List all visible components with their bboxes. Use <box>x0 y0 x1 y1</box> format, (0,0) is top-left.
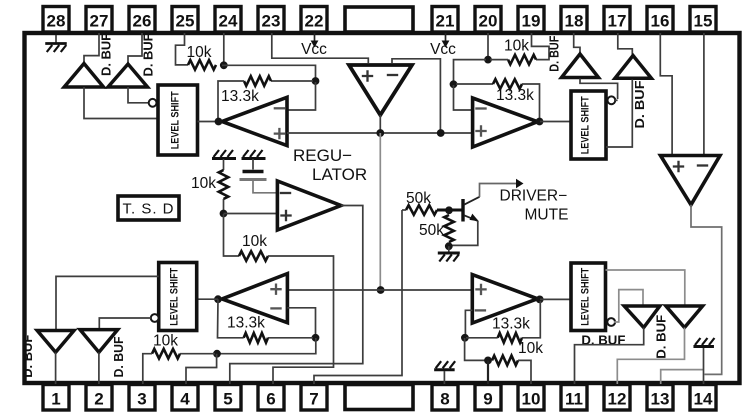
wire plus node to 10k feedback <box>224 214 240 256</box>
pin 11 (bottom) <box>561 385 587 411</box>
svg-text:8: 8 <box>440 390 449 409</box>
buffer D.BUF (pin 13 path) <box>666 306 703 328</box>
U5 minus input <box>280 192 291 194</box>
svg-text:7: 7 <box>309 390 318 409</box>
pin 22 (top) <box>301 7 327 33</box>
svg-text:17: 17 <box>608 12 627 31</box>
label D. BUF (bottom-right buffers) <box>655 314 669 358</box>
svg-text:10k: 10k <box>191 175 216 192</box>
op-amp U6 (bottom-left, points left) <box>222 274 287 323</box>
label 13.3k (bottom-left) <box>227 315 265 332</box>
wire node to pin 4 <box>186 354 217 384</box>
node: U1 output <box>215 118 223 126</box>
node: 13.3k/inverting-input junction (top-left) <box>312 77 320 85</box>
label 10k (top-left) <box>187 44 212 61</box>
resistor 13.3k (top-right) <box>456 79 540 119</box>
pin 14 (bottom) <box>690 385 716 411</box>
wire node to regulator plus <box>224 213 278 215</box>
U2 minus <box>387 74 398 76</box>
Vcc arrow (pin 21) <box>442 33 450 48</box>
svg-text:T. S. D: T. S. D <box>122 201 174 218</box>
op-amp U4 (right, points down) <box>661 156 721 205</box>
node: transistor base node <box>445 206 453 214</box>
svg-text:18: 18 <box>565 12 584 31</box>
label D. BUF (pin 1) <box>21 334 35 377</box>
node: bus right <box>437 129 445 137</box>
svg-text:13.3k: 13.3k <box>227 315 265 332</box>
node: regulator plus input <box>220 210 228 218</box>
wire U7 minus to 13.3k node <box>465 310 472 336</box>
node: 13.3k junction (bottom-left) <box>312 334 320 342</box>
svg-text:10k: 10k <box>518 340 543 357</box>
svg-text:13.3k: 13.3k <box>221 88 259 105</box>
label D. BUF (pin 2) <box>112 336 126 377</box>
wire 10k to pin 10 <box>518 360 531 384</box>
inverting bubble (top-right level shift) <box>608 96 616 104</box>
wire 10k to pin 6 <box>268 256 334 384</box>
wire 13.3k node to 10k node <box>465 338 486 360</box>
svg-text:D. BUF: D. BUF <box>21 334 35 377</box>
pin 12 (bottom) <box>604 385 630 411</box>
pin 4 (bottom) <box>172 385 198 411</box>
level shift box (top-left) <box>158 85 198 155</box>
svg-text:D. BUF: D. BUF <box>655 314 669 358</box>
svg-text:DRIVER−: DRIVER− <box>500 188 568 205</box>
wire node to ground <box>448 246 450 251</box>
Vcc arrow (pin 22) <box>311 33 319 48</box>
wire pin 18 to buffer <box>574 33 580 53</box>
wire U6 output to level shift <box>197 298 219 300</box>
label 13.3k (top-left) <box>221 88 259 105</box>
node: pin20/10k junction <box>484 56 492 64</box>
svg-text:26: 26 <box>133 12 152 31</box>
pin 17 (top) <box>604 7 630 33</box>
pin 26 (top) <box>129 7 155 33</box>
U3 minus input <box>475 107 486 109</box>
wire bubble to buffer12 <box>614 290 643 322</box>
package tab (bottom) <box>345 385 413 410</box>
label 13.3k (bottom-right) <box>492 316 530 333</box>
wire 13.3k node to 10k node <box>219 338 316 354</box>
Vref bus (top) <box>287 132 473 134</box>
arrow DRIVER <box>516 179 524 189</box>
resistor 10k (top-left) <box>188 60 216 70</box>
buffer D.BUF (pin 12 path) <box>624 306 660 328</box>
svg-text:D. BUF: D. BUF <box>112 336 126 377</box>
svg-text:LEVEL SHIFT: LEVEL SHIFT <box>169 268 181 326</box>
buffer D.BUF (pin 2) <box>80 330 118 353</box>
svg-text:25: 25 <box>176 12 195 31</box>
wire level-shift to buffer17 <box>606 80 632 148</box>
wire 10k to node <box>490 59 508 61</box>
label 10k (bottom-right) <box>518 340 543 357</box>
resistor 13.3k (top-left) <box>218 76 313 119</box>
wire buffer2 to pin 2 <box>98 352 100 384</box>
Vref bus vertical <box>379 133 381 290</box>
svg-text:14: 14 <box>694 390 713 409</box>
wire buffer26 input from level-shift bubble <box>128 87 149 103</box>
capacitor C1 (regulator) <box>240 172 267 180</box>
wire U7 output to level shift <box>540 298 571 300</box>
svg-text:D. BUF: D. BUF <box>547 35 561 71</box>
wire pin 23 to Vref plus input <box>272 33 369 63</box>
buffer D.BUF (pin 27) <box>64 64 103 88</box>
buffer D.BUF (pin 26) <box>108 64 148 87</box>
pin 10 (bottom) <box>518 385 544 411</box>
node: 13.3k junction (bottom-right) <box>461 334 469 342</box>
svg-text:13: 13 <box>651 390 670 409</box>
svg-text:19: 19 <box>522 12 541 31</box>
inverting bubble (top-left level shift) <box>149 99 157 107</box>
wire ground to pin 14 <box>703 348 705 384</box>
pin 23 (top) <box>258 7 284 33</box>
wire to inverting input U1 <box>287 82 316 110</box>
label REGULATOR line1 <box>293 146 352 165</box>
pin 9 (bottom) <box>475 385 501 411</box>
svg-text:LEVEL SHIFT: LEVEL SHIFT <box>579 268 591 326</box>
node: U3 output <box>536 118 544 126</box>
svg-text:4: 4 <box>180 390 190 409</box>
svg-text:10k: 10k <box>504 38 529 55</box>
U6 minus input <box>270 307 281 309</box>
svg-text:9: 9 <box>483 390 492 409</box>
U2 plus <box>362 70 373 81</box>
buffer D.BUF (pin 1) <box>37 331 74 353</box>
node: emitter/50k junction <box>445 242 453 250</box>
wire buffer1 to pin 1 <box>55 352 57 384</box>
resistor 50k (vertical) <box>444 215 454 242</box>
svg-text:50k: 50k <box>419 222 444 239</box>
wire pin 26 to buffer <box>128 33 142 63</box>
wire buffer to pin 12 <box>617 328 684 385</box>
wire U3 output to level shift <box>540 121 571 123</box>
label Vcc (pin 21) <box>430 41 456 58</box>
T.S.D box <box>118 196 179 220</box>
resistor 10k (bottom-left) <box>152 349 180 359</box>
wire pin 7 to 50k <box>314 210 402 384</box>
wire gnd to 10k <box>223 159 225 170</box>
svg-text:2: 2 <box>94 390 103 409</box>
svg-text:10: 10 <box>522 390 541 409</box>
package tab (top) <box>345 7 413 32</box>
wire pin 24 to node <box>223 33 225 65</box>
wire pin 25 to 10k <box>176 33 189 65</box>
label D. BUF (pin 27) <box>100 33 114 76</box>
svg-text:REGU−: REGU− <box>293 146 352 165</box>
resistor 50k (horizontal) <box>406 205 437 215</box>
wire pin 19 to 10k <box>532 33 550 60</box>
pin 18 (top) <box>561 7 587 33</box>
wire node to 13.3k node <box>222 65 316 78</box>
svg-text:10k: 10k <box>153 333 178 350</box>
pin 24 (top) <box>215 7 241 33</box>
Vref bus (lower) <box>287 289 472 291</box>
level shift box (bottom-right) <box>571 263 606 331</box>
label MUTE <box>525 207 569 224</box>
label 10k (top-right) <box>504 38 529 55</box>
svg-text:24: 24 <box>219 12 238 31</box>
svg-text:D. BUF: D. BUF <box>633 80 647 128</box>
svg-text:12: 12 <box>608 390 627 409</box>
wire emitter down <box>450 221 478 246</box>
pin 3 (bottom) <box>129 385 155 411</box>
wire buffer to pin 11 <box>575 328 644 385</box>
svg-text:LEVEL SHIFT: LEVEL SHIFT <box>170 91 182 149</box>
node: bus left <box>376 129 384 137</box>
svg-text:D. BUF: D. BUF <box>100 33 114 76</box>
label 10k (regulator feedback) <box>242 233 267 250</box>
label D. BUF (pin 26) <box>142 33 156 76</box>
wire 10k leads <box>143 354 215 384</box>
node: lower Vref junction <box>377 286 385 294</box>
wire node to pin 9 <box>487 360 489 384</box>
wire pin 15 to minus input <box>703 33 705 155</box>
label Vcc (pin 22) <box>301 41 327 58</box>
svg-text:27: 27 <box>90 12 109 31</box>
node: U6 output <box>214 295 222 303</box>
ground (mute transistor) <box>438 253 460 262</box>
label DRIVER- <box>500 188 568 205</box>
op-amp U1 (top-left, points left) <box>222 97 287 145</box>
label 50k (vertical) <box>419 222 444 239</box>
wire ground to pin 8 <box>443 371 445 384</box>
svg-text:Vcc: Vcc <box>430 41 456 58</box>
svg-text:15: 15 <box>694 12 713 31</box>
buffer D.BUF (pin 18) <box>562 54 599 78</box>
op-amp U5 regulator (points right) <box>277 181 341 230</box>
svg-text:LATOR: LATOR <box>312 165 367 184</box>
label D. BUF (pin 18) <box>547 35 561 71</box>
svg-text:10k: 10k <box>242 233 267 250</box>
wire buffer27 input from level-shift <box>84 87 158 119</box>
svg-text:LEVEL SHIFT: LEVEL SHIFT <box>580 96 592 154</box>
U4 plus <box>673 161 684 172</box>
wire node to base <box>437 209 462 212</box>
pin 16 (top) <box>647 7 673 33</box>
resistor 10k (top-right) <box>508 55 536 65</box>
pin 7 (bottom) <box>301 385 327 411</box>
node: 10k junction (bottom-right) <box>484 357 492 365</box>
wire node to 13.3k node <box>454 60 487 82</box>
U5 plus input <box>280 210 291 221</box>
pin 25 (top) <box>172 7 198 33</box>
U4 minus <box>697 164 708 166</box>
wire U4 output to pin 14 node <box>691 205 722 375</box>
label 50k (horizontal) <box>406 190 431 207</box>
wire level-shift to buffer1 <box>56 276 159 330</box>
wire gnd to capacitor <box>252 159 254 170</box>
resistor 10k (bottom-right) <box>492 356 518 366</box>
wire U6 minus to 13.3k node <box>287 308 315 336</box>
pin 13 (bottom) <box>647 385 673 411</box>
ground (regulator capacitor) <box>242 150 266 159</box>
svg-text:Vcc: Vcc <box>301 41 327 58</box>
wire bubble to box <box>614 99 618 101</box>
node: pin24/10k junction <box>220 61 228 69</box>
pin 1 (bottom) <box>43 385 69 411</box>
svg-text:10k: 10k <box>187 44 212 61</box>
ground (pin 14) <box>693 338 714 347</box>
svg-text:22: 22 <box>305 12 324 31</box>
pin 20 (top) <box>475 7 501 33</box>
label 10k (regulator) <box>191 175 216 192</box>
ground (pin 28) <box>45 35 67 52</box>
op-amp U3 (top-right, points right) <box>473 98 538 147</box>
wire capacitor to minus input <box>253 181 277 193</box>
svg-text:5: 5 <box>223 390 232 409</box>
pin 15 (top) <box>690 7 716 33</box>
pin 19 (top) <box>518 7 544 33</box>
svg-text:13.3k: 13.3k <box>496 87 534 104</box>
op-amp U7 (bottom-right, points right) <box>472 275 537 323</box>
inverting bubble (bottom-right level shift) <box>607 318 615 326</box>
label 10k (bottom-left) <box>153 333 178 350</box>
svg-text:28: 28 <box>47 12 66 31</box>
U1 minus input <box>274 107 285 109</box>
svg-text:23: 23 <box>262 12 281 31</box>
op-amp U2 (Vref buffer, points down) <box>349 65 412 115</box>
pin 5 (bottom) <box>215 385 241 411</box>
svg-text:6: 6 <box>266 390 275 409</box>
wire pin 20 to node <box>487 33 489 60</box>
pin 28 (top) <box>43 7 69 33</box>
level shift box (top-right) <box>571 91 606 159</box>
wire 50k lead <box>402 209 406 211</box>
node: U7 output <box>536 296 544 304</box>
wire pin 16 to plus input <box>660 33 672 155</box>
U3 plus input <box>475 125 486 136</box>
svg-text:20: 20 <box>479 12 498 31</box>
wire U2 feedback (minus to output bus) <box>392 59 440 131</box>
svg-text:3: 3 <box>137 390 146 409</box>
svg-text:11: 11 <box>565 390 583 409</box>
resistor 10k (regulator, vertical) <box>219 170 229 199</box>
wire level-shift to buffer13 <box>606 270 685 305</box>
svg-text:13.3k: 13.3k <box>492 316 530 333</box>
wire pin13 tie <box>661 370 704 384</box>
svg-text:D. BUF: D. BUF <box>142 33 156 76</box>
wire 10k to plus node <box>223 199 225 214</box>
U7 plus input <box>475 284 486 295</box>
svg-text:16: 16 <box>651 12 670 31</box>
ground (regulator resistor) <box>212 150 236 159</box>
svg-text:MUTE: MUTE <box>525 207 569 224</box>
pin 8 (bottom) <box>432 385 458 411</box>
wire U2 output to bus <box>379 115 381 133</box>
U6 plus input <box>270 284 281 295</box>
wire bubble to buffer2 <box>99 318 151 329</box>
wire buffer18 input from bubble <box>580 79 618 100</box>
svg-text:1: 1 <box>51 390 60 409</box>
wire level-shift input from op-amp U1 output <box>198 121 220 123</box>
label 13.3k (top-right) <box>496 87 534 104</box>
transistor Q1 (driver mute) <box>463 197 480 222</box>
pin 2 (bottom) <box>86 385 112 411</box>
pin 27 (top) <box>86 7 112 33</box>
label D. BUF (bottom-right box) <box>581 334 625 348</box>
inverting bubble (bottom-left level shift) <box>151 314 159 322</box>
wire to inverting input U3 <box>454 85 473 110</box>
U7 minus input <box>475 309 486 311</box>
label D. BUF (pin 17) <box>633 80 647 128</box>
ground (pin 8) <box>434 361 455 370</box>
wire pin 17 to buffer <box>618 33 633 55</box>
wire pin 27 to buffer <box>84 33 99 63</box>
pin 6 (bottom) <box>258 385 284 411</box>
level shift box (bottom-left) <box>159 263 197 331</box>
svg-text:21: 21 <box>436 12 455 31</box>
buffer D.BUF (pin 17) <box>615 56 651 79</box>
resistor 13.3k (bottom-left) <box>218 299 314 342</box>
wire collector to driver arrow <box>480 184 517 198</box>
svg-text:50k: 50k <box>406 190 431 207</box>
resistor 10k (regulator feedback) <box>239 251 268 261</box>
resistor 13.3k (bottom-right) <box>466 301 540 343</box>
wire regulator output to pin 5 <box>230 206 363 385</box>
label REGULATOR line2 <box>312 165 367 184</box>
node: 10k junction (bottom-left) <box>213 350 221 358</box>
U1 plus input <box>274 128 285 139</box>
pin 21 (top) <box>432 7 458 33</box>
node: 13.3k junction (top-right) <box>450 80 458 88</box>
